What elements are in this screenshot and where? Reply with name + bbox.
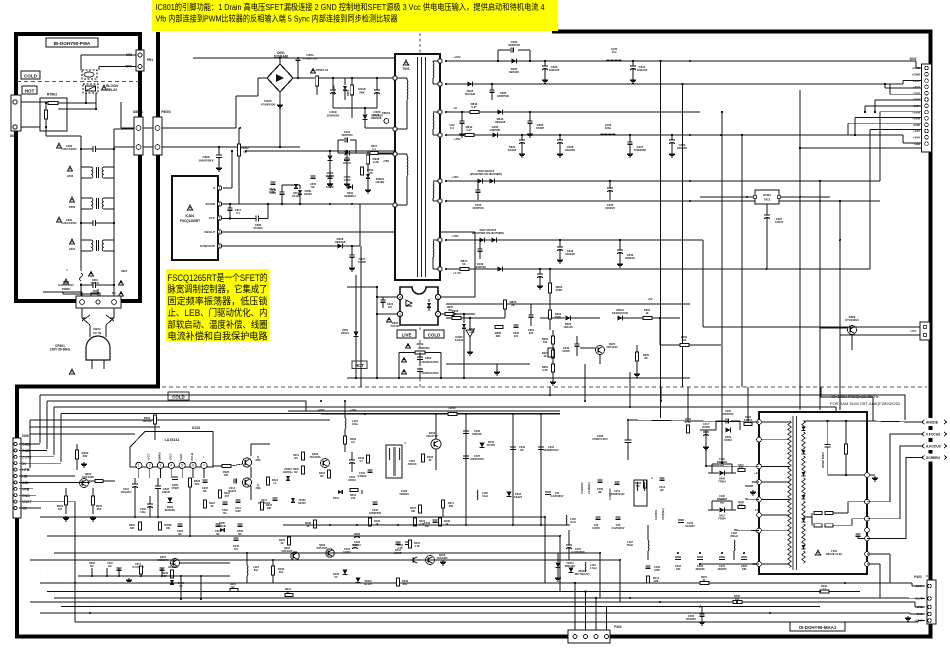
wire bbox=[355, 275, 357, 378]
wire bbox=[619, 253, 621, 262]
resistor bbox=[744, 423, 752, 426]
inductor bbox=[733, 540, 736, 551]
svg-text:HZ(D3)+: HZ(D3)+ bbox=[283, 471, 293, 474]
svg-text:KSC1845: KSC1845 bbox=[317, 547, 328, 550]
svg-text:3: 3 bbox=[399, 312, 401, 316]
wire bbox=[39, 395, 41, 443]
wire bbox=[29, 427, 31, 474]
electrolytic capacitor bbox=[617, 249, 623, 251]
wire bbox=[45, 127, 47, 136]
wire bbox=[432, 198, 434, 201]
svg-text:330P/500: 330P/500 bbox=[474, 265, 486, 269]
wire bbox=[433, 60, 440, 62]
connector P8003 bbox=[153, 117, 162, 155]
svg-text:220/35: 220/35 bbox=[162, 490, 170, 494]
svg-text:0.1: 0.1 bbox=[236, 211, 240, 215]
junction bbox=[463, 377, 465, 379]
ground bbox=[92, 516, 94, 518]
junction bbox=[619, 559, 621, 561]
wire bbox=[154, 407, 156, 415]
connector CN304 bbox=[13, 438, 21, 518]
wire bbox=[446, 303, 690, 305]
pin 6 bbox=[190, 462, 196, 468]
wire bbox=[854, 118, 856, 136]
electrolytic capacitor bbox=[764, 214, 770, 216]
wire bbox=[433, 180, 440, 182]
connector P801 at right edge of power board bbox=[136, 50, 144, 71]
wire bbox=[280, 57, 298, 59]
svg-text:100P/2K: 100P/2K bbox=[490, 128, 501, 132]
wire bbox=[134, 478, 136, 484]
svg-text:+25V: +25V bbox=[913, 85, 920, 89]
wire bbox=[433, 83, 440, 85]
capacitor bbox=[725, 419, 727, 424]
svg-text:100u: 100u bbox=[352, 422, 358, 426]
inductor bbox=[432, 62, 435, 78]
junction bbox=[544, 516, 546, 518]
wire bbox=[599, 354, 601, 364]
wire bbox=[867, 563, 880, 565]
electrolytic capacitor bbox=[147, 503, 153, 505]
junction bbox=[118, 575, 120, 577]
wire bbox=[799, 387, 801, 410]
wire bbox=[54, 552, 600, 554]
wire bbox=[708, 472, 719, 474]
ground bbox=[279, 103, 281, 105]
wire bbox=[238, 480, 242, 482]
wire bbox=[39, 443, 41, 444]
wire bbox=[250, 444, 252, 456]
wire bbox=[731, 420, 740, 422]
svg-text:3: 3 bbox=[160, 464, 162, 468]
svg-text:39K: 39K bbox=[496, 334, 501, 338]
svg-text:PB1: PB1 bbox=[147, 58, 153, 62]
svg-text:4: 4 bbox=[399, 295, 401, 299]
resistor bbox=[153, 415, 156, 424]
pin bbox=[136, 145, 141, 150]
pin bbox=[923, 333, 927, 337]
wire bbox=[213, 480, 234, 482]
warning triangle C804b bbox=[402, 369, 407, 373]
svg-text:LIVE: LIVE bbox=[402, 332, 412, 337]
wire bbox=[19, 507, 41, 509]
wire bbox=[848, 501, 865, 503]
line filter L801 bbox=[81, 239, 91, 241]
capacitor bbox=[255, 216, 257, 222]
svg-text:A.FOCUS: A.FOCUS bbox=[926, 444, 942, 448]
wire bbox=[329, 161, 331, 170]
svg-text:HER108: HER108 bbox=[371, 116, 382, 120]
wire bbox=[629, 387, 631, 407]
svg-text:0.24E/W1: 0.24E/W1 bbox=[418, 346, 430, 350]
wire bbox=[803, 421, 805, 566]
wire bbox=[213, 465, 222, 467]
wire bbox=[181, 469, 183, 479]
power board frame (top-left box) bbox=[16, 34, 140, 301]
junction bbox=[659, 601, 661, 603]
capacitor bbox=[311, 175, 316, 177]
connector pin +5VM bbox=[925, 110, 929, 114]
svg-text:5: 5 bbox=[219, 244, 221, 248]
diode bbox=[726, 428, 731, 433]
wire bbox=[739, 421, 741, 424]
svg-text:NC: NC bbox=[90, 565, 94, 568]
wire bbox=[236, 95, 258, 97]
diode bbox=[220, 528, 224, 532]
svg-text:HZ18V: HZ18V bbox=[376, 180, 385, 184]
pin 1 bbox=[136, 462, 142, 468]
wire bbox=[867, 446, 913, 519]
ground bbox=[346, 182, 348, 184]
connector pin +5VM bbox=[925, 117, 929, 121]
svg-text:R62/256: R62/256 bbox=[686, 618, 696, 621]
svg-text:0.025/400V: 0.025/400V bbox=[551, 495, 564, 498]
wire bbox=[912, 585, 925, 587]
capacitor bbox=[529, 314, 534, 316]
wire bbox=[435, 414, 437, 439]
wire bbox=[606, 607, 608, 631]
junction bbox=[743, 552, 745, 554]
wire bbox=[632, 69, 634, 78]
junction bbox=[113, 222, 115, 224]
electrolytic capacitor bbox=[630, 65, 636, 67]
svg-text:HER108: HER108 bbox=[495, 120, 506, 124]
pin bbox=[865, 536, 870, 541]
inductor bbox=[344, 418, 347, 429]
wire bbox=[134, 487, 136, 495]
wire bbox=[512, 414, 514, 480]
svg-text:100: 100 bbox=[735, 598, 740, 601]
wire bbox=[671, 135, 673, 140]
capacitor bbox=[476, 189, 481, 191]
resistor bbox=[548, 310, 551, 319]
ground bbox=[529, 132, 531, 134]
junction bbox=[746, 196, 748, 198]
junction bbox=[229, 217, 231, 219]
junction bbox=[705, 465, 707, 467]
svg-text:4.7: 4.7 bbox=[359, 460, 363, 463]
wire bbox=[54, 407, 836, 470]
junction bbox=[85, 102, 87, 104]
svg-text:10K/2W: 10K/2W bbox=[142, 419, 152, 423]
pin 5 bbox=[179, 462, 185, 468]
capacitor bbox=[234, 537, 239, 539]
wire bbox=[19, 494, 36, 496]
warning triangle 1WRE bbox=[63, 279, 68, 284]
svg-text:2200P/AC250V: 2200P/AC250V bbox=[421, 361, 439, 364]
svg-text:RT802: RT802 bbox=[47, 93, 57, 97]
HOT label mid bbox=[352, 361, 367, 369]
resistor bbox=[315, 76, 318, 86]
capacitor bbox=[700, 613, 705, 615]
junction bbox=[445, 268, 447, 270]
svg-text:437: 437 bbox=[58, 507, 63, 511]
junction bbox=[140, 575, 142, 577]
P403 pin GND bbox=[928, 612, 932, 616]
junction bbox=[681, 83, 683, 85]
resistor bbox=[397, 578, 400, 586]
diode bbox=[462, 324, 466, 328]
wire bbox=[446, 239, 703, 241]
diode bbox=[356, 578, 361, 583]
COLD label lower bbox=[168, 392, 189, 400]
wire bbox=[46, 536, 48, 592]
junction bbox=[827, 420, 829, 422]
junction bbox=[884, 83, 886, 85]
ground bbox=[521, 152, 523, 154]
wire bbox=[619, 560, 621, 602]
wire bbox=[47, 535, 560, 537]
junction bbox=[200, 575, 202, 577]
junction bbox=[549, 268, 551, 270]
svg-text:1N4148: 1N4148 bbox=[563, 325, 573, 329]
pin bbox=[865, 562, 870, 567]
junction bbox=[629, 134, 631, 136]
wire bbox=[660, 61, 662, 387]
svg-text:1000P: 1000P bbox=[358, 260, 366, 264]
wire bbox=[446, 317, 452, 319]
wire bbox=[76, 102, 96, 104]
pin bbox=[438, 133, 442, 137]
junction bbox=[267, 203, 269, 205]
capacitor bbox=[178, 523, 183, 525]
diode bbox=[478, 179, 483, 184]
COLD label (power board) bbox=[21, 71, 40, 79]
IC IC301 LA78141 bbox=[130, 432, 213, 468]
wire bbox=[344, 401, 346, 418]
svg-text:FB/SLP: FB/SLP bbox=[204, 230, 215, 234]
wire bbox=[30, 559, 620, 561]
junction bbox=[540, 524, 542, 526]
wire bbox=[549, 330, 551, 387]
wire bbox=[81, 308, 83, 318]
wire bbox=[80, 55, 82, 70]
svg-text:HZ20V: HZ20V bbox=[298, 502, 306, 505]
warning triangle L801 bbox=[69, 239, 74, 244]
svg-text:100U/35: 100U/35 bbox=[637, 68, 648, 72]
resistor bbox=[442, 500, 445, 508]
wire bbox=[442, 470, 444, 500]
junction bbox=[364, 107, 366, 109]
wire bbox=[689, 344, 721, 346]
wire bbox=[857, 525, 859, 534]
svg-text:KZ303(C3V3): KZ303(C3V3) bbox=[612, 311, 628, 315]
ground bbox=[874, 476, 876, 478]
pin bbox=[438, 238, 442, 242]
capacitor bbox=[160, 567, 165, 569]
wire bbox=[21, 101, 48, 103]
wire bbox=[845, 421, 847, 444]
resistor bbox=[328, 470, 331, 478]
FBT HV winding 7 bbox=[802, 551, 805, 563]
wire bbox=[344, 444, 346, 452]
wire bbox=[454, 313, 475, 315]
capacitor bbox=[92, 146, 94, 152]
junction bbox=[689, 180, 691, 182]
ground bbox=[329, 182, 331, 184]
wire bbox=[95, 93, 97, 109]
svg-text:R53/55V: R53/55V bbox=[332, 85, 336, 95]
svg-text:2K: 2K bbox=[644, 356, 647, 360]
resistor bbox=[495, 326, 503, 329]
junction bbox=[106, 575, 108, 577]
capacitor bbox=[660, 477, 665, 479]
junction bbox=[632, 60, 634, 62]
junction bbox=[584, 400, 586, 402]
wire bbox=[258, 77, 267, 79]
pin 3 bbox=[157, 462, 163, 468]
wire bbox=[687, 387, 689, 421]
wire bbox=[885, 87, 921, 89]
wire bbox=[549, 293, 551, 304]
wire bbox=[628, 420, 759, 422]
transistor bbox=[326, 549, 334, 557]
svg-text:10K: 10K bbox=[166, 527, 171, 530]
svg-text:+7.2V: +7.2V bbox=[453, 271, 461, 275]
wire bbox=[419, 353, 421, 358]
svg-text:5mH: 5mH bbox=[482, 495, 488, 498]
diode bbox=[720, 508, 725, 513]
junction bbox=[540, 413, 542, 415]
resistor bbox=[171, 570, 174, 578]
capacitor bbox=[460, 120, 465, 122]
svg-text:472: 472 bbox=[234, 548, 239, 551]
connector pin +GND bbox=[925, 73, 929, 77]
wire bbox=[890, 93, 921, 95]
svg-text:T802: T802 bbox=[69, 205, 76, 209]
wire bbox=[250, 486, 252, 500]
junction bbox=[854, 134, 856, 136]
pin 1 bbox=[217, 186, 221, 190]
wire bbox=[398, 353, 400, 379]
wire bbox=[917, 621, 919, 623]
svg-text:330P/2K: 330P/2K bbox=[472, 433, 482, 436]
resistor bbox=[548, 283, 551, 293]
wire bbox=[574, 583, 576, 630]
wire bbox=[585, 592, 587, 631]
svg-text:4.7uH: 4.7uH bbox=[590, 567, 597, 570]
LIVE label bbox=[397, 330, 416, 338]
board label OI-DOHY90-MAA1 bbox=[790, 622, 845, 631]
wire bbox=[595, 598, 597, 630]
wire stub bbox=[140, 568, 142, 576]
svg-text:CVT3: CVT3 bbox=[22, 455, 31, 459]
svg-text:HZ12V: HZ12V bbox=[364, 583, 372, 586]
wire bbox=[204, 485, 206, 536]
junction bbox=[659, 60, 661, 62]
svg-text:HER808.4: HER808.4 bbox=[344, 195, 356, 198]
resistor bbox=[219, 490, 222, 498]
wire bbox=[30, 601, 885, 603]
warning triangle bbox=[387, 317, 392, 321]
junction bbox=[346, 150, 348, 152]
wire bbox=[479, 251, 481, 259]
wire bbox=[435, 449, 437, 470]
wire bbox=[40, 516, 545, 518]
wire bbox=[21, 126, 40, 128]
FBT HV diode 6 bbox=[802, 545, 806, 549]
wire bbox=[539, 269, 541, 274]
pin bbox=[80, 300, 85, 305]
svg-text:-: - bbox=[137, 456, 140, 457]
wire bbox=[344, 78, 346, 85]
junction bbox=[627, 419, 629, 421]
ground bbox=[544, 78, 546, 80]
FBT HV diode 1 bbox=[802, 427, 806, 431]
resistor bbox=[139, 522, 142, 530]
wire bbox=[867, 458, 913, 539]
wire bbox=[557, 553, 559, 562]
svg-text:RT804 H1: RT804 H1 bbox=[316, 68, 329, 72]
svg-text:P8003: P8003 bbox=[161, 110, 170, 114]
transistor bbox=[171, 559, 180, 568]
wire bbox=[143, 127, 153, 129]
junction bbox=[632, 60, 634, 62]
wire stub bbox=[106, 568, 108, 576]
wire bbox=[469, 337, 471, 350]
svg-text:600P/500: 600P/500 bbox=[723, 413, 734, 416]
wire bbox=[395, 153, 407, 155]
junction bbox=[769, 612, 771, 614]
svg-text:TMU023: TMU023 bbox=[399, 493, 409, 496]
svg-text:330P/500: 330P/500 bbox=[508, 43, 520, 47]
wire bbox=[752, 481, 759, 483]
wire bbox=[552, 330, 554, 336]
junction bbox=[344, 400, 346, 402]
capacitor bbox=[328, 175, 333, 177]
resistor bbox=[302, 466, 305, 474]
svg-text:30K: 30K bbox=[449, 505, 454, 508]
svg-text:S801: S801 bbox=[121, 269, 128, 273]
junction bbox=[819, 200, 821, 202]
svg-text:0.47: 0.47 bbox=[471, 105, 477, 109]
warning triangle IC801 bbox=[187, 205, 192, 210]
wire bbox=[905, 612, 908, 614]
warning triangle bbox=[406, 343, 411, 347]
wire bbox=[660, 387, 662, 401]
wire bbox=[299, 185, 301, 189]
focus resistor 4 bbox=[825, 524, 833, 527]
wire bbox=[701, 616, 703, 620]
wire bbox=[376, 108, 378, 128]
wire bbox=[170, 469, 172, 479]
svg-text:4.7/350(BP): 4.7/350(BP) bbox=[571, 551, 585, 554]
resistor bbox=[647, 576, 650, 583]
junction bbox=[465, 524, 467, 526]
svg-text:VD: VD bbox=[22, 507, 27, 511]
dashed boundary above separator bbox=[419, 340, 421, 387]
wire bbox=[61, 413, 560, 415]
wire bbox=[909, 613, 911, 614]
junction bbox=[584, 590, 586, 592]
wire bbox=[497, 50, 499, 61]
wire bbox=[97, 289, 99, 296]
svg-text:0.33/400V: 0.33/400V bbox=[580, 482, 584, 494]
wire bbox=[761, 530, 790, 532]
svg-text:10K: 10K bbox=[224, 473, 229, 477]
wire bbox=[549, 269, 551, 283]
wire bbox=[222, 231, 475, 233]
resistor bbox=[452, 317, 461, 320]
svg-text:55uH: 55uH bbox=[627, 544, 633, 547]
flyback transformer T403 body bbox=[759, 412, 867, 574]
wire bbox=[332, 93, 334, 108]
capacitor bbox=[675, 556, 681, 558]
diode bbox=[498, 110, 503, 115]
capacitor bbox=[296, 57, 301, 59]
svg-text:F8001: F8001 bbox=[382, 111, 391, 115]
svg-text:0.22/AC250V: 0.22/AC250V bbox=[61, 147, 77, 151]
